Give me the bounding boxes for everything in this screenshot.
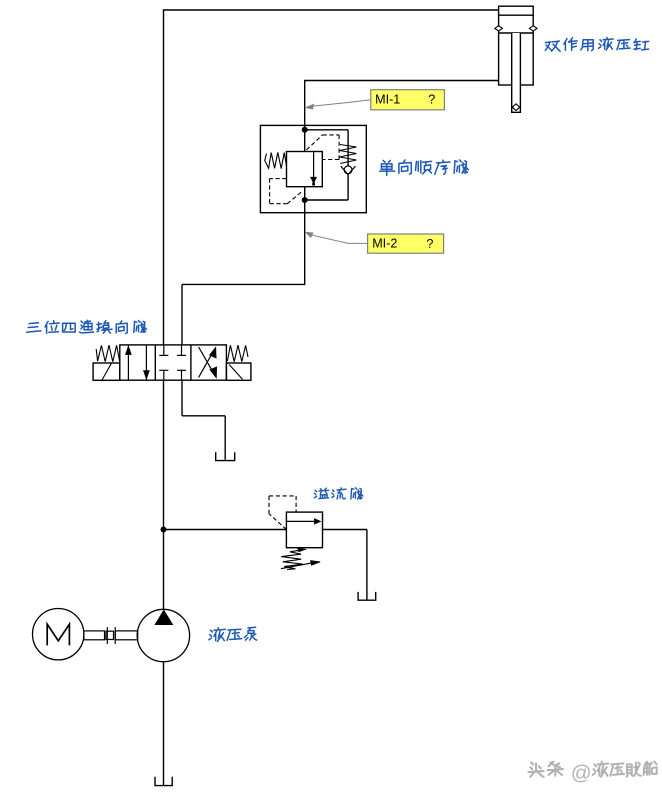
node junction dot on trunk (161, 527, 166, 532)
cylinder port diamond left (495, 26, 503, 31)
label MI-1 text (375, 92, 435, 106)
spring box right (226, 363, 251, 380)
wire T port drain (182, 380, 225, 460)
watermark text (528, 761, 656, 784)
wire check-valve branch top (305, 130, 348, 167)
wire relief valve outlet (323, 530, 367, 600)
svg-text:?: ? (426, 237, 433, 251)
wire check-valve branch bottom (305, 174, 348, 200)
wire trunk valve-to-pump segment (163, 380, 165, 610)
check valve seat (341, 166, 356, 174)
tank under directional valve drain (216, 452, 235, 460)
motor letter M (47, 624, 69, 645)
label directional valve (san wei si tong huan xiang fa) (27, 320, 147, 333)
coupling tick left (106, 627, 108, 644)
cylinder port diamond right (529, 26, 537, 31)
label MI-2 leader (306, 232, 368, 243)
label sequence valve (dan xiang shun xu fa) (380, 160, 469, 176)
label pump (ye ya beng) (209, 627, 257, 641)
directional valve divider left (154, 345, 156, 380)
sequence valve pilot dashed upper-right (307, 135, 340, 160)
relief valve flow arrow (286, 519, 320, 524)
spring right (227, 345, 248, 362)
motor circle (33, 609, 84, 660)
sequence valve body square (287, 152, 323, 187)
spring box left (93, 363, 120, 380)
wire sequence valve lower line (304, 187, 306, 285)
pump circle (137, 609, 189, 661)
cylinder rod-end diamond (512, 104, 519, 111)
center position blocked port T (177, 370, 186, 380)
directional valve body (120, 345, 227, 380)
left position flow line up (126, 346, 132, 381)
center position blocked port B (177, 345, 186, 356)
right position cross arrow SE (199, 347, 217, 378)
relief valve body square (286, 512, 322, 548)
center position blocked port P (159, 370, 168, 380)
label MI-1 box (371, 90, 445, 110)
sequence valve flow arrow (311, 152, 317, 186)
cylinder barrel (499, 6, 534, 85)
wire top from trunk to cylinder (164, 9, 499, 11)
cylinder piston (499, 32, 534, 34)
relief valve spring (281, 548, 305, 570)
pump flow triangle (155, 610, 173, 624)
wire pump suction line (163, 662, 165, 786)
wire cylinder rod-side line (305, 80, 499, 82)
label relief valve (yi liu fa) (314, 488, 363, 499)
spring left (96, 345, 119, 362)
sequence valve spring (265, 152, 287, 168)
right position cross arrow NE (199, 347, 217, 377)
coupling shaft right (115, 631, 137, 640)
label cylinder (shuang zuo yong ye ya gang) (545, 38, 648, 52)
wire sequence valve upper line (304, 80, 306, 152)
svg-text:?: ? (428, 93, 435, 107)
coupling square (106, 631, 114, 639)
svg-text:@: @ (571, 761, 592, 784)
cylinder rod (512, 33, 521, 112)
center position blocked port A (159, 345, 168, 356)
tank under relief valve (358, 592, 376, 600)
sequence valve outer box (260, 125, 366, 212)
wire jog to directional valve B port (182, 284, 305, 345)
svg-text:MI-1: MI-1 (375, 92, 400, 106)
coupling tick right (114, 627, 116, 644)
wire relief valve inlet (164, 529, 287, 531)
relief valve adjust arrow (281, 561, 320, 569)
check valve ball (344, 166, 352, 174)
node top junction dot (302, 127, 307, 132)
sequence valve pilot dashed lower-left (270, 179, 303, 204)
node bottom junction dot (302, 197, 307, 202)
cylinder cap line (499, 14, 534, 16)
label MI-2 text (372, 237, 433, 251)
relief valve pilot dashed (269, 496, 296, 530)
left position flow line down (144, 345, 150, 380)
label MI-1 leader (306, 100, 371, 109)
coupling shaft left (84, 631, 105, 640)
svg-text:MI-2: MI-2 (372, 237, 397, 251)
check valve spring (340, 145, 357, 164)
wire main trunk upper segment (163, 9, 165, 345)
directional valve divider right (190, 345, 192, 380)
label MI-2 box (368, 234, 444, 253)
tank under pump suction (155, 777, 172, 786)
